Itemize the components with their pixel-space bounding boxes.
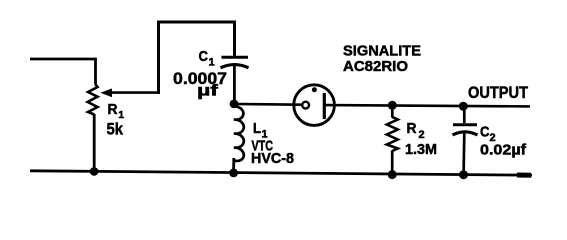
inductor L1 coil [234,106,244,161]
svg-text:R: R [108,101,118,118]
junction node: C2 bottom on ground rail [459,170,468,179]
capacitor C2 top plate [453,123,477,126]
svg-text:OUTPUT: OUTPUT [468,83,529,102]
potentiometer R1 zigzag [88,84,98,115]
svg-text:R: R [407,120,417,137]
wire: C2 top lead [463,106,466,123]
svg-text:5k: 5k [107,120,124,139]
wire: riser up, across top, down to C1 [159,22,235,94]
junction node: R2 bottom on ground rail [388,170,397,179]
svg-text:2: 2 [419,129,425,141]
capacitor C1 top plate [222,56,249,59]
wiper arrowhead of R1 [101,88,113,97]
capacitor C2 curved bottom plate [453,132,478,135]
svg-text:0.02µf: 0.02µf [480,143,526,159]
junction node: L1 bottom on ground rail [229,169,238,178]
wire: ground rail (bottom) [30,171,532,175]
svg-text:L: L [253,120,261,137]
neon lamp V1 envelope (Signalite AC82RIO) [294,85,335,126]
wire: ground rail thick right end [517,173,531,178]
neon lamp left electrode (open dot) [302,102,309,109]
junction node: R1 bottom on ground rail [90,167,99,176]
svg-text:AC82RIO: AC82RIO [343,58,408,75]
wire: wiper line to riser [108,91,159,94]
wire: R2 top lead [391,105,394,118]
svg-text:HVC-8: HVC-8 [251,150,294,167]
svg-text:µf: µf [197,83,219,100]
wire: C2 bottom lead [462,134,465,175]
svg-text:C: C [199,48,209,65]
neon lamp right electrode (bar) [323,93,326,119]
neon lamp gas dot [312,87,317,92]
capacitor C1 curved bottom plate [221,65,249,68]
resistor R2 zigzag [387,117,398,151]
wire: C1 bottom lead to node [233,66,236,103]
junction node: C2 top [459,102,468,111]
wire: top-left horizontal lead to R1 top [30,59,96,84]
junction node: C1 / L1 / lamp line [230,100,239,109]
wire: R1 bottom lead to ground rail [93,114,96,171]
svg-text:C: C [480,124,490,141]
svg-text:SIGNALITE: SIGNALITE [343,42,421,59]
wire: L1 bottom lead [232,158,235,172]
wire: node to lamp left electrode [234,103,302,106]
wire: R2 bottom lead [391,151,394,175]
junction node: R2 top [388,101,397,110]
svg-text:1.3M: 1.3M [405,141,437,158]
svg-text:1: 1 [209,57,215,69]
wire: lamp right electrode to output line end [326,105,531,106]
